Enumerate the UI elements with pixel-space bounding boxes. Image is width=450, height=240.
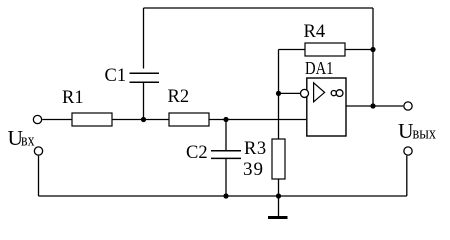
- node B junction: [223, 117, 228, 122]
- resistor R1: [72, 113, 112, 126]
- wire op-amp output: [346, 105, 403, 107]
- wire right vertical down: [372, 8, 374, 106]
- node A junction: [141, 117, 146, 122]
- op-amp DA1 inverting input bubble: [300, 89, 308, 97]
- terminal output top: [404, 102, 412, 110]
- svg-text:R1: R1: [62, 88, 84, 108]
- node F junction output: [370, 103, 375, 108]
- wire top feedback: [144, 7, 374, 9]
- wire R3 bottom lead: [278, 179, 280, 196]
- wire input bottom lead: [38, 156, 40, 196]
- wire input to R1: [42, 119, 72, 121]
- wire node A to R2: [144, 119, 170, 121]
- node C2 bottom junction: [223, 193, 228, 198]
- node G junction ground: [276, 193, 281, 198]
- ground: [268, 196, 288, 218]
- wire output bottom lead: [406, 156, 408, 196]
- svg-text:C2: C2: [186, 143, 208, 163]
- wire R4 right to node D: [345, 49, 373, 51]
- resistor R4: [305, 43, 345, 56]
- op-amp DA1 body: [307, 78, 346, 136]
- wire C1 bottom lead to node A: [143, 83, 145, 120]
- wire bottom rail: [39, 195, 407, 197]
- wire feedback vertical: [278, 50, 280, 140]
- node E junction inverting input: [276, 91, 281, 96]
- op-amp infinity gain symbol: [331, 90, 343, 97]
- wire C2 top lead: [225, 120, 227, 151]
- wire node B to op-amp noninverting input: [226, 119, 306, 121]
- wire node E to inverting bubble: [279, 92, 301, 94]
- wire C1 top lead: [143, 8, 145, 69]
- wire R4 left: [279, 49, 306, 51]
- resistor R3: [272, 139, 285, 179]
- svg-text:R4: R4: [304, 22, 326, 42]
- wire C2 bottom lead: [225, 159, 227, 196]
- capacitor C2: [211, 151, 241, 159]
- svg-text:DA1: DA1: [305, 58, 334, 78]
- op-amp triangle symbol: [314, 83, 325, 102]
- capacitor C1: [130, 73, 160, 82]
- node D junction R4 right: [370, 47, 375, 52]
- svg-text:Uвх: Uвх: [8, 126, 35, 150]
- svg-text:R2: R2: [168, 87, 190, 107]
- terminal input bottom: [34, 147, 42, 155]
- svg-text:39: 39: [243, 159, 264, 180]
- wire R1 to node A: [112, 119, 144, 121]
- wire R2 to node B: [209, 119, 226, 121]
- svg-text:Uвых: Uвых: [398, 119, 436, 143]
- terminal input top: [33, 115, 41, 123]
- svg-text:C1: C1: [105, 66, 127, 86]
- resistor R2: [169, 113, 209, 126]
- terminal output bottom: [404, 147, 412, 155]
- svg-text:R3: R3: [244, 139, 267, 159]
